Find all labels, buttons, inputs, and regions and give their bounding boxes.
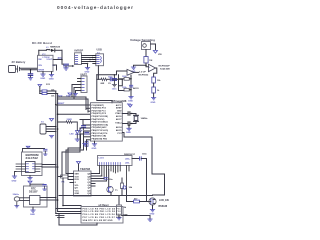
series resistor into 595 [58, 175, 68, 184]
svg-text:VIN: VIN [38, 65, 42, 67]
XTAL2 wire [122, 123, 128, 125]
cap C7 [128, 122, 130, 125]
big net wire MCU to LCD right [124, 137, 165, 195]
74HC595 vcc flag [77, 162, 81, 172]
svg-text:GND: GND [49, 78, 54, 80]
I2C pullup power flag [38, 84, 51, 87]
crystal caps junctions [131, 113, 132, 124]
svg-text:ADC5: ADC5 [116, 129, 123, 132]
wire trimpot to gnd right [122, 215, 151, 217]
gate resistor [134, 198, 148, 203]
svg-text:VOUT: VOUT [46, 59, 53, 61]
wires into notes box [56, 206, 81, 214]
usb wire drop [119, 79, 123, 85]
svg-text:MCP6002: MCP6002 [139, 75, 150, 77]
svg-text:BSS138: BSS138 [159, 206, 168, 208]
power mark [72, 65, 74, 67]
LED ground [75, 134, 79, 141]
wire PC5 right [122, 133, 124, 138]
svg-text:QA: QA [87, 173, 91, 176]
svg-text:LCD_EN: LCD_EN [159, 199, 169, 202]
svg-text:PD5 LCD RW PB1 LCD D5 P12: PD5 LCD RW PB1 LCD D5 P12 [83, 211, 122, 213]
crystal Q1 [130, 114, 148, 124]
wire below notes box [59, 214, 97, 226]
svg-text:SDA RTC SCL EE WP GND: SDA RTC SCL EE WP GND [83, 219, 113, 222]
EEPROM gnd below [28, 176, 32, 180]
svg-text:0004-voltage-datalogger: 0004-voltage-datalogger [57, 5, 133, 11]
MCU bottom gnd [92, 141, 97, 150]
input capacitor C1 [28, 69, 32, 80]
EEPROM pins [16, 164, 42, 172]
LED resistor R2 [58, 119, 73, 123]
RTC crystal Y1 [13, 194, 30, 208]
IC4B output wire [134, 71, 139, 73]
USB inner pin labels [97, 56, 100, 64]
I2C bus vertical SCL [57, 94, 59, 212]
svg-text:PD6(AIN0/OC0A): PD6(AIN0/OC0A) [92, 123, 109, 126]
crystal circuit: flag 3V3 [127, 103, 132, 107]
svg-text:QH: QH [87, 193, 91, 195]
svg-text:SCK: SCK [75, 176, 80, 178]
svg-text:QB: QB [87, 176, 91, 178]
EEPROM WP gnd [12, 172, 17, 183]
svg-text:GND: GND [128, 101, 133, 103]
transistor emitter down [110, 192, 112, 195]
svg-text:DS1307: DS1307 [29, 191, 38, 194]
svg-text:GND: GND [117, 110, 122, 112]
USB pin stubs [93, 56, 96, 64]
wire lcd row to box [59, 195, 153, 197]
svg-text:XTAL2: XTAL2 [115, 121, 122, 124]
ground left of opamp [131, 67, 136, 73]
svg-text:330R: 330R [67, 119, 73, 121]
wire from LCD right to cap [132, 154, 147, 161]
svg-text:ADC7: ADC7 [116, 118, 123, 121]
wires USB down [97, 66, 112, 103]
svg-text:ADC4: ADC4 [116, 126, 123, 129]
usb row junction [122, 79, 124, 81]
74HC595 left pin labels [75, 174, 80, 196]
wire opamp out down [154, 68, 157, 77]
MCU IC3 box [91, 103, 123, 141]
svg-text:ADC6: ADC6 [116, 115, 123, 118]
screw terminal X3 [142, 42, 156, 50]
svg-text:PD0(RXD) PC0: PD0(RXD) PC0 [92, 108, 107, 110]
connector UART box [81, 76, 87, 93]
LCD box [98, 156, 133, 166]
LED1 [70, 129, 83, 136]
svg-text:PB3(MOSI) PB5: PB3(MOSI) PB5 [92, 138, 108, 140]
RTC pins right to bus [40, 198, 58, 201]
svg-text:SER: SER [75, 174, 80, 176]
resistor R8 [122, 76, 131, 80]
svg-text:RCK: RCK [75, 179, 80, 181]
decoupling cap A [82, 126, 86, 130]
wire terminal down [145, 50, 147, 57]
S1 pins right [46, 127, 56, 132]
feedback wire [119, 75, 125, 91]
svg-text:GND: GND [12, 181, 17, 183]
MOSFET Q3 [147, 198, 156, 205]
svg-text:GND: GND [92, 148, 97, 150]
USB shield glyph [100, 57, 103, 63]
RTC module box [24, 186, 48, 207]
svg-text:68R: 68R [101, 83, 105, 85]
diode D1 MBR0520 [50, 47, 61, 52]
resistor R6 [152, 77, 162, 83]
wire R6-R7 [153, 83, 155, 87]
svg-text:100n: 100n [108, 76, 113, 78]
LCD inner labels [125, 159, 131, 165]
svg-text:GND: GND [30, 214, 35, 216]
cap C6 [128, 112, 130, 115]
wire R7 down to gnd [153, 93, 155, 98]
RTC gnd [30, 207, 35, 216]
I2C pullup resistors [40, 87, 58, 98]
LCD pins down [100, 166, 130, 189]
svg-text:24LC512: 24LC512 [26, 156, 39, 160]
branch to gnd left [134, 65, 147, 67]
cap C5 [130, 85, 140, 90]
ground under feedback [128, 97, 133, 103]
svg-text:LED: LED [70, 134, 75, 136]
svg-text:PD7(AIN1) ADC: PD7(AIN1) ADC [92, 126, 108, 129]
resistor R5 1M [144, 57, 153, 64]
S1 button box [40, 124, 46, 134]
resistor R9 [122, 87, 131, 91]
RTC IC body [30, 196, 41, 205]
svg-text:VIN: VIN [158, 54, 162, 56]
connector AVRISP box [75, 53, 82, 65]
svg-text:AVCC: AVCC [116, 104, 122, 107]
power flags above MCU [68, 93, 72, 96]
svg-text:AREF: AREF [116, 107, 122, 110]
node 3V3 junction [61, 59, 63, 61]
svg-text:100n: 100n [108, 179, 113, 181]
input cap C10 [112, 74, 117, 91]
MCU left pin labels [92, 105, 109, 141]
UART pin stubs [78, 79, 82, 91]
MOSFET source down [150, 205, 155, 215]
AVRISP inner pin marks [75, 56, 77, 64]
decoupling cap B [85, 132, 89, 134]
LED wire from resistor [72, 122, 77, 131]
IC1 boost regulator box [38, 55, 54, 71]
FB divider wire [53, 65, 57, 70]
svg-text:SHDN: SHDN [38, 70, 44, 72]
LCD inner pin ticks [100, 163, 121, 165]
svg-text:PD1(TXD) PC1: PD1(TXD) PC1 [92, 110, 107, 112]
svg-text:IC4A 4dB: IC4A 4dB [160, 67, 170, 70]
595 right wires to LCD bus [91, 174, 106, 187]
74HC595 box [74, 171, 92, 196]
svg-text:GND: GND [75, 193, 80, 195]
wires MCU down to 595 [61, 148, 84, 180]
svg-text:PD4 LCD RS PB0 LCD D4 P11: PD4 LCD RS PB0 LCD D4 P11 [83, 207, 122, 210]
svg-text:100n: 100n [142, 154, 147, 156]
74HC595 right pin labels [87, 173, 91, 196]
connector USB box [96, 54, 104, 66]
op-amp IC4B [127, 69, 134, 76]
reset pull resistor [85, 141, 88, 146]
notes box right junction [123, 214, 127, 216]
cap C2 ground [64, 66, 68, 70]
wire R4 net down to notes [62, 178, 64, 206]
svg-text:USB: USB [97, 49, 102, 52]
XTAL1 wire [122, 113, 128, 115]
svg-text:PB2(SS/OC1B): PB2(SS/OC1B) [92, 136, 107, 138]
EEPROM IC body [26, 162, 36, 173]
wire R5 to opamp [146, 63, 149, 67]
svg-text:PB1(OC1A) PC4: PB1(OC1A) PC4 [92, 132, 109, 135]
pin junction dots [87, 57, 94, 65]
notes box [81, 207, 123, 224]
svg-text:ADC0: ADC0 [133, 87, 140, 90]
inductor L1 [39, 47, 50, 50]
trimpot R10 [117, 196, 127, 220]
AVRISP pin wires [82, 56, 96, 64]
I2C bus vertical SDA [55, 91, 57, 214]
vertical drops to bottom ICs [80, 121, 87, 153]
EEPROM IC pin marks [26, 164, 34, 172]
svg-text:1M: 1M [149, 60, 152, 62]
ground under AVRISP [85, 64, 90, 74]
ground under IC1 [49, 72, 54, 81]
gnd below crystal caps [126, 125, 131, 134]
RTC bus junction dots [55, 197, 58, 201]
svg-text:16MHz: 16MHz [141, 118, 149, 120]
gate wire from LCD_EN [127, 188, 134, 202]
usb series resistor R3 [97, 78, 107, 85]
decoupling gnd [83, 144, 87, 146]
resistor R7 [152, 87, 160, 93]
wire cap down to mosfet gate [146, 159, 148, 202]
bus junction dots [55, 104, 58, 168]
output capacitor C2 [62, 50, 68, 66]
wire D1 to 3V3 node [55, 49, 62, 51]
ground under UART [74, 94, 78, 96]
svg-text:MCP6002P: MCP6002P [159, 65, 171, 67]
MCU right pin labels [115, 104, 122, 135]
wire into minus input [97, 71, 127, 75]
wire 3V3 stub right [68, 65, 73, 67]
EEPROM module box [22, 152, 43, 176]
svg-text:GND: GND [151, 102, 156, 104]
svg-text:LED-: LED- [125, 163, 130, 165]
wires into MCU left top [57, 105, 91, 114]
uart-mcu wires [58, 97, 89, 112]
svg-text:GND: GND [126, 132, 131, 134]
chain gnd [151, 98, 156, 104]
svg-text:AVRISP: AVRISP [74, 50, 83, 53]
svg-text:QH: QH [75, 188, 79, 190]
svg-text:PD3(INT1/OC2B): PD3(INT1/OC2B) [92, 116, 109, 118]
S1 power flag [50, 119, 54, 122]
svg-text:PD6 LCD EN PB2 LCD D6 P13: PD6 LCD EN PB2 LCD D6 P13 [83, 214, 122, 216]
svg-text:MBR0520: MBR0520 [50, 47, 61, 49]
svg-text:LCD1: LCD1 [99, 158, 105, 160]
LCD E wire down to transistor [108, 170, 110, 187]
lower gnd right [148, 216, 152, 222]
IC1 pin labels [38, 57, 55, 72]
svg-text:3.3 OP: 3.3 OP [139, 72, 146, 74]
LCD cap 100n [104, 178, 113, 182]
svg-text:SW: SW [38, 59, 41, 61]
wire inductor feed down [38, 50, 40, 55]
svg-text:3V Battery: 3V Battery [12, 60, 26, 64]
UART inner pin marks [82, 79, 84, 91]
op-amp IC4A buffer [149, 64, 156, 72]
UART wires left [72, 85, 78, 100]
wire VOUT to 3V3 node [53, 59, 62, 61]
svg-text:LED+: LED+ [125, 159, 131, 161]
svg-text:PC6(RESET): PC6(RESET) [92, 105, 105, 107]
MCU left wires [80, 120, 90, 140]
ground under IC1 second [40, 72, 45, 80]
svg-text:QG: QG [87, 190, 91, 192]
battery BT1 [9, 66, 20, 73]
EEPROM wires to bus [42, 165, 58, 168]
notes box text rows [83, 207, 122, 222]
wire battery second row [21, 69, 38, 71]
transistor T1 [107, 186, 119, 192]
R8 left wire [119, 78, 125, 80]
svg-text:QD: QD [87, 182, 91, 184]
svg-text:PD5(T1/OC0B) A: PD5(T1/OC0B) A [92, 121, 109, 124]
svg-text:32kHz: 32kHz [13, 194, 20, 196]
svg-text:VCC: VCC [75, 190, 80, 192]
svg-text:100n: 100n [112, 89, 117, 91]
svg-text:DC-DC Boost: DC-DC Boost [32, 41, 52, 45]
74HC595 left wires [68, 174, 74, 183]
svg-text:GND: GND [40, 78, 45, 80]
feedback vertical [130, 75, 132, 96]
backlight resistor on x=122 [121, 178, 133, 196]
bus stubs right at bottom [56, 216, 64, 218]
svg-text:PD2(INT0) PC2: PD2(INT0) PC2 [92, 113, 107, 115]
S1 ground [49, 136, 53, 138]
RTC vcc wire and cap [28, 181, 46, 190]
svg-text:PB0(ICP1/CLKO): PB0(ICP1/CLKO) [92, 130, 109, 132]
PWR flag [153, 51, 162, 57]
wire battery to boost [20, 67, 38, 69]
EEPROM power rail [23, 146, 48, 155]
svg-text:QC: QC [87, 179, 91, 181]
svg-text:XTAL1: XTAL1 [115, 112, 122, 115]
svg-text:PD4(T0/XCK): PD4(T0/XCK) [92, 118, 105, 121]
usb series cap C4 [107, 76, 122, 85]
svg-text:PD7 LCD BL PB3 LCD D7 P14: PD7 LCD BL PB3 LCD D7 P14 [83, 216, 122, 219]
svg-text:SCL: SCL [75, 185, 80, 187]
